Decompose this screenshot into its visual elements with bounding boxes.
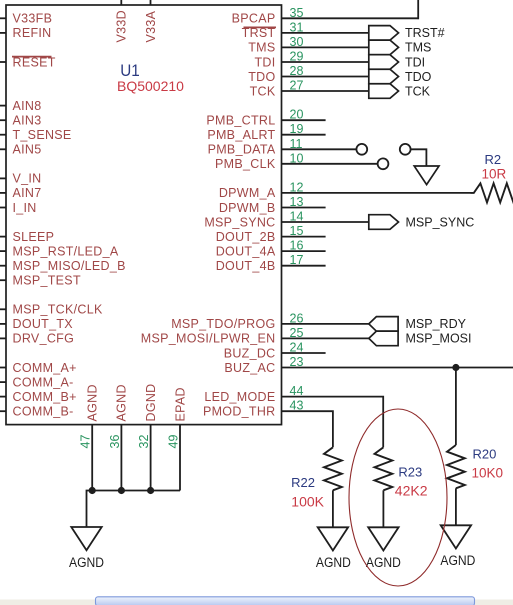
- overline for TRST: [244, 26, 277, 28]
- wire left pin stub DOUT_TX: [0, 323, 6, 325]
- svg-text:27: 27: [290, 79, 304, 93]
- wire left pin stub I_IN: [0, 207, 6, 209]
- resistor R20 body: [447, 445, 465, 488]
- wire bottom pin EPAD (49): [179, 425, 181, 491]
- svg-text:29: 29: [290, 50, 304, 64]
- svg-text:32: 32: [137, 435, 151, 449]
- svg-text:10: 10: [290, 151, 304, 165]
- wire right pin PMB_DATA: [282, 148, 357, 150]
- svg-text:PMB_DATA: PMB_DATA: [208, 143, 276, 157]
- svg-text:EPAD: EPAD: [173, 387, 187, 421]
- wire right pin PMB_CLK: [282, 163, 378, 165]
- svg-text:49: 49: [167, 435, 181, 449]
- svg-text:AIN3: AIN3: [13, 114, 42, 128]
- svg-text:DOUT_4A: DOUT_4A: [216, 244, 276, 258]
- no-connect circle on PMB_DATA: [356, 144, 367, 155]
- wire left pin stub MSP_RST/LED_A: [0, 250, 6, 252]
- svg-text:PMOD_THR: PMOD_THR: [203, 405, 276, 419]
- wire right pin DOUT_2B: [282, 236, 326, 238]
- svg-text:TDO: TDO: [405, 70, 432, 84]
- wire bottom pin AGND (47): [91, 425, 93, 491]
- svg-text:MSP_TDO/PROG: MSP_TDO/PROG: [171, 317, 275, 331]
- svg-text:16: 16: [290, 239, 304, 253]
- svg-text:AIN7: AIN7: [13, 186, 42, 200]
- wire right pin DPWM_B: [282, 207, 326, 209]
- wire right pin DOUT_4A: [282, 250, 326, 252]
- svg-text:25: 25: [290, 326, 304, 340]
- ground AGND (under R20): [441, 525, 471, 548]
- svg-text:V_IN: V_IN: [13, 172, 42, 186]
- wire R23 to ground: [382, 490, 384, 527]
- svg-text:R20: R20: [473, 446, 497, 461]
- svg-text:TDI: TDI: [405, 55, 425, 69]
- node MSP_SYNC global label connector: [369, 215, 399, 230]
- svg-text:AGND: AGND: [115, 384, 129, 421]
- node MSP_RDY global label connector: [369, 317, 398, 332]
- resistor R2 body (horizontal zigzag): [471, 183, 513, 202]
- svg-text:MSP_TCK/CLK: MSP_TCK/CLK: [13, 303, 103, 317]
- svg-text:DOUT_2B: DOUT_2B: [216, 230, 276, 244]
- svg-text:BPCAP: BPCAP: [232, 12, 276, 26]
- svg-text:REFIN: REFIN: [13, 26, 52, 40]
- svg-text:V33A: V33A: [144, 10, 158, 42]
- svg-text:15: 15: [290, 224, 304, 238]
- wire left pin stub COMM_B+: [0, 396, 6, 398]
- wire right pin MSP_MOSI/LPWR_EN: [282, 337, 369, 339]
- svg-text:V33FB: V33FB: [13, 12, 53, 26]
- svg-text:17: 17: [290, 253, 304, 267]
- junction node on ground bus: [89, 487, 96, 494]
- wire left pin stub REFIN: [0, 32, 6, 34]
- wire right pin TRST: [282, 32, 369, 34]
- svg-text:R23: R23: [398, 465, 422, 480]
- svg-text:T_SENSE: T_SENSE: [13, 128, 72, 142]
- wire bottom pin DGND (32): [150, 425, 152, 491]
- node MSP_MOSI global label connector: [369, 331, 398, 346]
- wire BUZ_AC down to R20: [455, 368, 457, 446]
- svg-text:DRV_CFG: DRV_CFG: [13, 332, 75, 346]
- node TRST# global label connector: [369, 26, 399, 41]
- wire left pin stub MSP_MISO/LED_B: [0, 265, 6, 267]
- wire bottom pin AGND (36): [120, 425, 122, 491]
- wire R20 to ground: [455, 488, 457, 525]
- svg-text:I_IN: I_IN: [13, 201, 37, 215]
- svg-text:12: 12: [290, 180, 304, 194]
- svg-text:31: 31: [290, 20, 304, 34]
- svg-text:PMB_CTRL: PMB_CTRL: [206, 114, 275, 128]
- svg-text:11: 11: [290, 137, 303, 151]
- svg-text:MSP_MISO/LED_B: MSP_MISO/LED_B: [13, 259, 126, 273]
- junction node on BUZ_AC: [452, 364, 459, 371]
- wire right pin MSP_SYNC: [282, 221, 369, 223]
- resistor R23 body: [375, 447, 393, 490]
- svg-text:U1: U1: [120, 61, 140, 80]
- wire left pin stub DRV_CFG: [0, 337, 6, 339]
- wire top pin stub V33A: [150, 0, 152, 5]
- node TDO global label connector: [369, 69, 399, 84]
- wire R22 to ground: [332, 490, 334, 527]
- wire right pin BUZ_AC: [282, 367, 513, 369]
- svg-text:AGND: AGND: [69, 555, 104, 570]
- wire right pin PMB_CTRL: [282, 119, 326, 121]
- ground AGND (under R23): [368, 527, 398, 550]
- svg-text:BUZ_DC: BUZ_DC: [224, 346, 276, 360]
- svg-text:19: 19: [290, 122, 304, 136]
- svg-text:MSP_RDY: MSP_RDY: [406, 317, 467, 331]
- svg-text:23: 23: [290, 355, 304, 369]
- wire right pin DOUT_4B: [282, 265, 326, 267]
- svg-text:100K: 100K: [291, 494, 324, 510]
- svg-text:TDI: TDI: [254, 55, 275, 69]
- svg-text:MSP_SYNC: MSP_SYNC: [204, 215, 275, 229]
- ground AGND (under R22): [318, 527, 348, 550]
- wire right pin TDI: [282, 61, 369, 63]
- wire top pin stub V33D: [120, 0, 122, 5]
- wire right pin PMB_ALRT: [282, 134, 326, 136]
- svg-text:43: 43: [290, 399, 304, 413]
- svg-text:10R: 10R: [482, 167, 507, 182]
- svg-text:R2: R2: [485, 152, 502, 167]
- svg-text:DGND: DGND: [144, 383, 158, 421]
- svg-text:AGND: AGND: [316, 555, 351, 570]
- svg-text:24: 24: [290, 341, 304, 355]
- svg-text:MSP_MOSI/LPWR_EN: MSP_MOSI/LPWR_EN: [141, 332, 276, 346]
- svg-text:R22: R22: [291, 475, 315, 490]
- svg-text:TMS: TMS: [405, 41, 431, 55]
- junction node on ground bus: [147, 487, 154, 494]
- svg-text:MSP_MOSI: MSP_MOSI: [406, 332, 472, 346]
- wire left pin stub COMM_B-: [0, 410, 6, 412]
- svg-text:COMM_A+: COMM_A+: [13, 361, 77, 375]
- overline for RESET: [12, 56, 52, 58]
- svg-text:TRST#: TRST#: [405, 26, 445, 40]
- wire right pin DPWM_A: [282, 192, 471, 194]
- svg-text:10K0: 10K0: [472, 465, 504, 480]
- junction node on ground bus: [118, 487, 125, 494]
- wire left pin stub MSP_TEST: [0, 279, 6, 281]
- svg-text:TRST: TRST: [242, 26, 276, 40]
- wire left pin stub AIN8: [0, 105, 6, 107]
- svg-text:COMM_B+: COMM_B+: [13, 390, 77, 404]
- svg-text:30: 30: [290, 35, 304, 49]
- wire left pin stub RESET: [0, 61, 6, 63]
- wire from circle to ground: [411, 149, 427, 166]
- IC U1 BQ500210 body: [6, 5, 282, 425]
- wire right pin TCK: [282, 90, 369, 92]
- wire BPCAP up to top edge: [417, 0, 419, 19]
- svg-text:COMM_A-: COMM_A-: [13, 375, 74, 389]
- svg-text:DOUT_4B: DOUT_4B: [216, 259, 276, 273]
- wire left pin stub AIN5: [0, 148, 6, 150]
- svg-text:14: 14: [290, 210, 304, 224]
- wire left pin stub V_IN: [0, 177, 6, 179]
- svg-text:PMB_CLK: PMB_CLK: [215, 157, 276, 171]
- svg-text:AIN8: AIN8: [13, 99, 42, 113]
- svg-text:28: 28: [290, 64, 304, 78]
- svg-text:TMS: TMS: [248, 41, 275, 55]
- svg-text:26: 26: [290, 311, 304, 325]
- wire left pin stub AIN3: [0, 119, 6, 121]
- svg-text:BQ500210: BQ500210: [117, 78, 184, 94]
- no-connect circle on PMB_CLK: [378, 158, 389, 169]
- wire right pin BPCAP: [282, 17, 420, 19]
- svg-text:MSP_SYNC: MSP_SYNC: [406, 215, 475, 229]
- wire right pin PMOD_THR: [282, 411, 333, 447]
- ground AGND (small, near PMB): [414, 166, 439, 185]
- wire left pin stub V33FB: [0, 17, 6, 19]
- wire left pin stub COMM_A-: [0, 381, 6, 383]
- svg-text:42K2: 42K2: [395, 483, 428, 499]
- svg-text:V33D: V33D: [115, 10, 129, 42]
- svg-text:COMM_B-: COMM_B-: [13, 405, 74, 419]
- wire ground bus: [87, 491, 181, 528]
- svg-text:DPWM_B: DPWM_B: [219, 201, 276, 215]
- svg-text:AGND: AGND: [86, 384, 100, 421]
- resistor R22 body: [324, 447, 342, 490]
- svg-text:TCK: TCK: [250, 84, 276, 98]
- wire right pin BUZ_DC: [282, 352, 326, 354]
- svg-text:MSP_RST/LED_A: MSP_RST/LED_A: [13, 244, 119, 258]
- node TMS global label connector: [369, 40, 399, 55]
- svg-text:SLEEP: SLEEP: [13, 230, 55, 244]
- wire left pin stub T_SENSE: [0, 134, 6, 136]
- scrollbar thumb: [96, 597, 475, 605]
- svg-text:35: 35: [290, 6, 304, 20]
- svg-text:MSP_TEST: MSP_TEST: [13, 274, 81, 288]
- wire left pin stub MSP_TCK/CLK: [0, 308, 6, 310]
- open circle on AGND tie net: [400, 144, 411, 155]
- wire right pin TMS: [282, 46, 369, 48]
- svg-text:AGND: AGND: [440, 553, 475, 568]
- wire left pin stub SLEEP: [0, 236, 6, 238]
- svg-text:47: 47: [79, 435, 93, 449]
- svg-text:TDO: TDO: [248, 70, 275, 84]
- svg-text:DOUT_TX: DOUT_TX: [13, 317, 74, 331]
- svg-text:LED_MODE: LED_MODE: [204, 390, 275, 404]
- svg-text:AIN5: AIN5: [13, 143, 42, 157]
- svg-text:TCK: TCK: [405, 84, 431, 98]
- svg-text:20: 20: [290, 108, 304, 122]
- annotation ellipse around R23: [349, 409, 447, 586]
- wire right pin MSP_TDO/PROG: [282, 323, 369, 325]
- wire right pin TDO: [282, 76, 369, 78]
- node TCK global label connector: [369, 84, 399, 99]
- node TDI global label connector: [369, 55, 399, 70]
- wire left pin stub AIN7: [0, 192, 6, 194]
- svg-text:DPWM_A: DPWM_A: [219, 186, 276, 200]
- svg-text:36: 36: [108, 435, 122, 449]
- ground AGND (bottom left): [71, 527, 101, 550]
- wire right pin LED_MODE: [282, 397, 384, 448]
- svg-text:44: 44: [290, 384, 304, 398]
- svg-text:13: 13: [290, 195, 304, 209]
- wire left pin stub COMM_A+: [0, 367, 6, 369]
- svg-text:AGND: AGND: [366, 555, 401, 570]
- svg-text:BUZ_AC: BUZ_AC: [224, 361, 275, 375]
- svg-text:PMB_ALRT: PMB_ALRT: [207, 128, 275, 142]
